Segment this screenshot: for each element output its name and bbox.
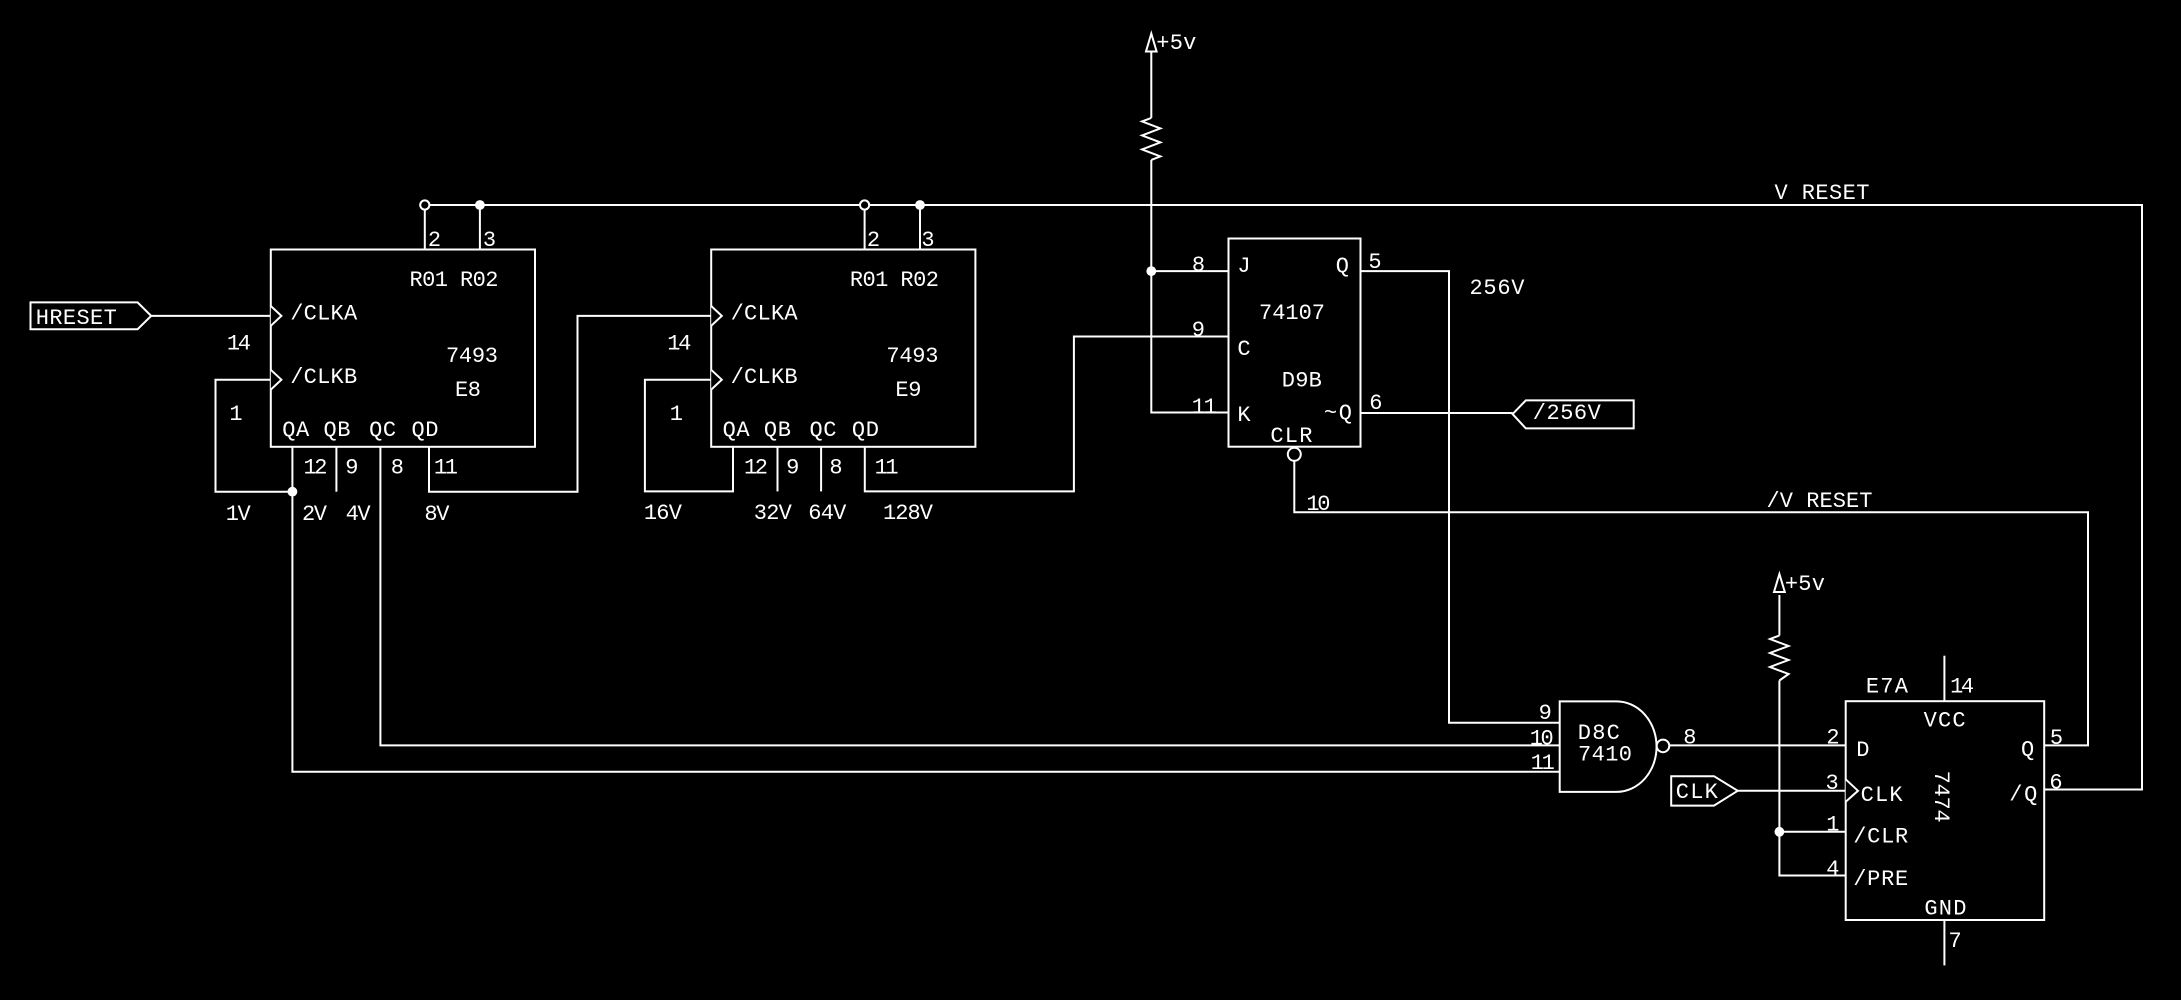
svg-text:14: 14 <box>1950 675 1974 700</box>
svg-text:8: 8 <box>1683 726 1696 751</box>
svg-text:QA: QA <box>723 418 751 443</box>
resistor R (pullup at 74107) <box>1142 118 1160 160</box>
gate D8C 7410 NAND body <box>1560 701 1657 792</box>
wire 74107 ~Q pin 6 to /256V flag <box>1361 412 1513 414</box>
svg-text:14: 14 <box>227 331 251 356</box>
svg-text:VCC: VCC <box>1924 708 1966 733</box>
power symbol +5v at 7474 <box>1774 574 1785 592</box>
wire E8 QB pin 9 stub (net 2V) <box>335 447 337 492</box>
svg-text:3: 3 <box>1825 771 1838 796</box>
svg-text:V RESET: V RESET <box>1775 181 1870 206</box>
flag CLK input <box>1671 776 1738 805</box>
wire V RESET bus from E8/E9 reset pins to 7474 /Q pin 6 <box>425 205 2142 790</box>
svg-text:D9B: D9B <box>1282 369 1322 394</box>
svg-text:9: 9 <box>1539 701 1552 726</box>
svg-text:5: 5 <box>2050 726 2063 751</box>
svg-text:3: 3 <box>921 228 934 253</box>
junction E9 pin3 at bus <box>915 200 925 210</box>
wire E8 pin3 stub to bus <box>479 205 481 250</box>
bubble 74107 CLR <box>1288 448 1301 461</box>
svg-text:1: 1 <box>229 402 242 427</box>
svg-text:/CLKB: /CLKB <box>290 365 357 390</box>
svg-text:1: 1 <box>1826 813 1839 838</box>
svg-text:9: 9 <box>786 456 799 481</box>
svg-text:32V: 32V <box>754 501 793 526</box>
svg-text:12: 12 <box>744 456 768 481</box>
svg-text:/V RESET: /V RESET <box>1767 489 1873 514</box>
svg-text:R01 R02: R01 R02 <box>410 268 499 293</box>
svg-text:11: 11 <box>434 456 458 481</box>
svg-text:/256V: /256V <box>1533 401 1602 426</box>
wire E9 QD pin 11 to 74107 C pin 9 (net 128V) <box>865 337 1229 492</box>
svg-text:256V: 256V <box>1470 276 1526 301</box>
wire HRESET to E8 /CLKA pin 14 <box>151 315 271 317</box>
wire E8 QA feedback to /CLKB pin 1 (net 1V) <box>216 380 293 492</box>
svg-text:10: 10 <box>1530 726 1554 751</box>
svg-text:K: K <box>1237 403 1251 428</box>
svg-text:8: 8 <box>391 456 404 481</box>
svg-text:128V: 128V <box>883 501 934 526</box>
clock wedge E9 /CLKA <box>711 306 722 326</box>
svg-text:CLK: CLK <box>1676 780 1719 805</box>
svg-text:/CLKA: /CLKA <box>731 301 799 326</box>
wire E8 QD pin 11 to E9 /CLKA pin 14 (net 8V) <box>429 316 711 492</box>
clock wedge E9 /CLKB <box>711 370 722 390</box>
wire CLK flag to 7474 CLK pin 3 <box>1738 790 1846 792</box>
svg-text:+5v: +5v <box>1156 31 1196 56</box>
junction E8 QA feedback <box>288 487 298 497</box>
wire 7410 output pin 8 to 7474 D pin 2 <box>1669 744 1845 746</box>
svg-text:5: 5 <box>1368 250 1381 275</box>
svg-text:7: 7 <box>1948 929 1961 954</box>
svg-text:9: 9 <box>1192 318 1205 343</box>
svg-text:2: 2 <box>867 228 880 253</box>
svg-text:E8: E8 <box>455 378 481 403</box>
IC E7A 7474 D flip-flop body <box>1846 701 2045 920</box>
junction 7474 /CLR//PRE tie <box>1775 827 1785 837</box>
svg-text:Q: Q <box>2021 738 2034 763</box>
svg-text:HRESET: HRESET <box>36 306 117 331</box>
svg-text:E9: E9 <box>895 378 921 403</box>
svg-text:7493: 7493 <box>886 344 938 369</box>
svg-text:7474: 7474 <box>1928 771 1953 823</box>
wire +5v pullup to 7474 /CLR pin 1 and /PRE pin 4 <box>1779 595 1845 876</box>
wire 74107 CLR pin 10 to /V RESET and 7474 Q pin 5 <box>1294 454 2088 745</box>
svg-text:14: 14 <box>667 331 691 356</box>
wire E9 pin3 stub to bus <box>919 205 921 250</box>
svg-text:QA: QA <box>282 418 310 443</box>
svg-text:11: 11 <box>1531 751 1555 776</box>
svg-text:2: 2 <box>428 228 441 253</box>
svg-text:74107: 74107 <box>1259 301 1325 326</box>
flag HRESET input <box>31 302 152 329</box>
svg-text:QD: QD <box>412 418 439 443</box>
wire E8 QA pin 12 down and to 7410 pin 11 <box>292 447 1559 772</box>
svg-text:4: 4 <box>1826 857 1839 882</box>
svg-text:10: 10 <box>1306 492 1330 517</box>
svg-text:6: 6 <box>2049 771 2062 796</box>
wire E9 QA feedback to /CLKB pin 1 (net 16V) <box>645 380 733 492</box>
svg-text:/CLR: /CLR <box>1853 824 1908 849</box>
svg-text:~Q: ~Q <box>1324 401 1352 426</box>
svg-text:3: 3 <box>483 228 496 253</box>
svg-text:C: C <box>1237 337 1250 362</box>
svg-text:QB: QB <box>324 418 351 443</box>
svg-text:2: 2 <box>1826 726 1839 751</box>
svg-text:/CLKA: /CLKA <box>290 301 358 326</box>
svg-text:8: 8 <box>829 456 842 481</box>
wire E9 pin2 stub to bus <box>864 205 866 250</box>
svg-text:4V: 4V <box>346 502 372 527</box>
svg-text:Q: Q <box>1336 254 1349 279</box>
flag /256V output <box>1513 400 1634 428</box>
wire 7474 VCC pin 14 stub <box>1943 656 1945 702</box>
svg-text:GND: GND <box>1924 897 1966 922</box>
clock wedge E8 /CLKA <box>271 306 282 326</box>
svg-text:7493: 7493 <box>446 344 498 369</box>
junction 74107 J/K tie <box>1146 266 1156 276</box>
svg-text:QC: QC <box>369 418 396 443</box>
node open circle E8 pin2 at bus <box>420 200 429 209</box>
power symbol +5v at 74107 <box>1146 34 1157 52</box>
svg-text:8V: 8V <box>424 502 450 527</box>
svg-text:CLK: CLK <box>1861 783 1904 808</box>
clock wedge E8 /CLKB <box>271 370 282 390</box>
svg-text:QC: QC <box>810 418 837 443</box>
svg-text:/Q: /Q <box>2009 782 2037 807</box>
svg-text:2V: 2V <box>302 502 328 527</box>
svg-text:11: 11 <box>875 456 899 481</box>
svg-text:QD: QD <box>852 418 879 443</box>
wire E9 QB pin 9 stub (net 32V) <box>777 447 779 492</box>
wire 7474 GND pin 7 stub <box>1943 920 1945 965</box>
svg-text:1: 1 <box>670 402 683 427</box>
svg-text:D: D <box>1856 738 1869 763</box>
IC E8 7493 counter body <box>271 250 535 447</box>
resistor R (pullup at 7474) <box>1770 636 1789 681</box>
svg-text:CLR: CLR <box>1270 424 1312 449</box>
wire 74107 Q pin 5 down to 7410 pin 9 (net 256V) <box>1361 271 1560 723</box>
svg-text:7410: 7410 <box>1578 743 1632 768</box>
svg-text:9: 9 <box>345 456 358 481</box>
svg-text:J: J <box>1237 254 1250 279</box>
wire E9 QC pin 8 stub (net 64V) <box>820 447 822 492</box>
svg-text:/PRE: /PRE <box>1853 867 1908 892</box>
svg-text:16V: 16V <box>644 501 683 526</box>
svg-text:R01 R02: R01 R02 <box>850 268 939 293</box>
wire +5v pullup to 74107 J pin 8 and K pin 11 <box>1151 52 1228 413</box>
svg-text:1V: 1V <box>226 502 252 527</box>
IC D9B 74107 JK flip-flop body <box>1229 239 1361 447</box>
svg-text:12: 12 <box>304 456 328 481</box>
bubble 7410 output <box>1657 740 1670 753</box>
svg-text:64V: 64V <box>808 501 847 526</box>
junction E8 pin3 at bus <box>475 200 485 210</box>
node open circle E9 pin2 at bus <box>860 200 869 209</box>
svg-text:QB: QB <box>764 418 791 443</box>
svg-text:E7A: E7A <box>1866 675 1909 700</box>
svg-text:8: 8 <box>1192 253 1205 278</box>
svg-text:+5v: +5v <box>1785 572 1825 597</box>
wire E8 QC pin 8 down and to 7410 pin 10 (net 4V) <box>380 447 1559 746</box>
wire E8 pin2 stub to bus <box>424 205 426 250</box>
svg-text:6: 6 <box>1369 391 1382 416</box>
svg-text:/CLKB: /CLKB <box>731 365 798 390</box>
svg-text:11: 11 <box>1192 395 1217 420</box>
clock wedge 7474 CLK <box>1846 779 1858 801</box>
IC E9 7493 counter body <box>711 250 975 447</box>
